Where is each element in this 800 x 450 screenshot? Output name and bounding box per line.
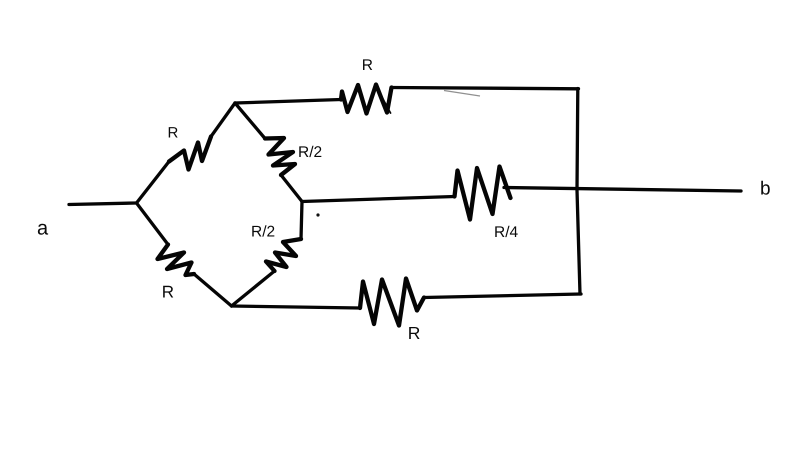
svg-text:b: b — [760, 179, 771, 200]
resistor R6 (R/4, middle horizontal) — [455, 167, 511, 220]
wire middle node to resistor R6 — [302, 197, 455, 202]
resistor R2 (R, lower-left diagonal a to bottom node) — [137, 203, 232, 306]
svg-text:R/4: R/4 — [494, 224, 519, 241]
resistor R7 (R, bottom horizontal) — [360, 279, 424, 326]
label R of R2 — [162, 282, 174, 301]
label R of R3 — [362, 57, 373, 74]
label R of R1 — [168, 124, 179, 141]
wire terminal a lead — [69, 203, 137, 205]
stray pencil mark — [444, 91, 480, 97]
svg-text:R: R — [168, 124, 179, 141]
label R/2 of R5 — [251, 224, 275, 241]
label R/2 of R4 — [298, 144, 322, 161]
svg-text:a: a — [37, 218, 49, 240]
svg-text:R/2: R/2 — [251, 224, 275, 241]
wire bottom node to resistor R7 — [232, 306, 361, 308]
resistor R4 (R/2, upper diagonal top node to middle node) — [235, 103, 302, 202]
wire resistor R6 to terminal b — [504, 188, 741, 192]
svg-text:R/2: R/2 — [298, 144, 322, 161]
label b — [760, 179, 771, 200]
label a — [37, 218, 49, 240]
label R of R7 — [408, 323, 421, 343]
resistor R1 (R, upper-left diagonal a to top node) — [137, 103, 236, 203]
svg-text:R: R — [162, 282, 174, 301]
svg-text:R: R — [362, 57, 373, 74]
svg-text:R: R — [408, 323, 421, 343]
resistor R3 (R, top horizontal) — [341, 85, 392, 114]
wire top node to resistor R3 — [235, 100, 341, 104]
resistor R5 (R/2, lower diagonal middle node to bottom node) — [232, 202, 303, 307]
stray dot near middle node — [316, 213, 319, 216]
wire resistor R7 to bottom-right corner — [424, 294, 581, 298]
wire right vertical bus — [577, 89, 580, 295]
label R/4 of R6 — [494, 224, 519, 241]
wire resistor R3 to top-right corner — [392, 88, 579, 89]
